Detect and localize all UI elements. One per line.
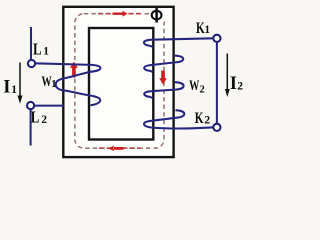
svg-text:2: 2 xyxy=(204,114,210,126)
terminal circle L2 xyxy=(27,102,34,109)
terminal circle L1 xyxy=(28,60,35,67)
svg-text:W: W xyxy=(189,77,199,93)
svg-text:1: 1 xyxy=(51,79,56,90)
svg-text:2: 2 xyxy=(237,81,243,93)
svg-text:1: 1 xyxy=(43,45,49,57)
svg-text:2: 2 xyxy=(41,114,47,126)
winding W2 right loop 1 and run to loop 2 xyxy=(144,56,183,73)
core window inner rectangle xyxy=(89,28,153,140)
current I1 arrow xyxy=(19,63,21,98)
svg-text:1: 1 xyxy=(11,84,17,96)
svg-text:I: I xyxy=(3,78,10,98)
lead wire below L2 xyxy=(30,109,32,146)
winding W2 right loop 2 and run to loop 3 xyxy=(144,82,183,98)
current I2 arrow xyxy=(226,54,228,91)
svg-text:1: 1 xyxy=(204,24,210,36)
phi label xyxy=(152,8,162,23)
flux arrow left limb (pointing up) xyxy=(70,62,78,78)
wire K1 to K2 xyxy=(216,42,218,124)
terminal circle K2 xyxy=(213,124,220,131)
winding W2 top run from K1 and loop 1 xyxy=(144,38,214,47)
svg-text:K: K xyxy=(195,109,204,126)
wire to L2 terminal xyxy=(35,105,64,107)
flux arrow bottom (pointing left) xyxy=(108,146,123,151)
lead wire above L1 xyxy=(30,27,32,60)
svg-text:L: L xyxy=(33,41,42,59)
svg-text:L: L xyxy=(31,109,40,127)
core outer rectangle xyxy=(63,7,173,157)
svg-text:2: 2 xyxy=(200,84,205,95)
winding W2 right loop 3 and run to loop 4 and wire to K2 xyxy=(144,110,213,128)
flux gap for phi symbol xyxy=(150,10,165,23)
svg-text:I: I xyxy=(230,74,237,94)
terminal circle K1 xyxy=(213,35,220,42)
flux arrow right limb (pointing down) xyxy=(159,71,167,85)
flux path dashed loop xyxy=(75,14,164,149)
flux arrow top (pointing right) xyxy=(113,11,128,17)
winding W1 upper run and loops xyxy=(35,63,101,105)
flux top bright dashes xyxy=(98,13,141,15)
flux bottom bright dashes xyxy=(99,147,140,149)
